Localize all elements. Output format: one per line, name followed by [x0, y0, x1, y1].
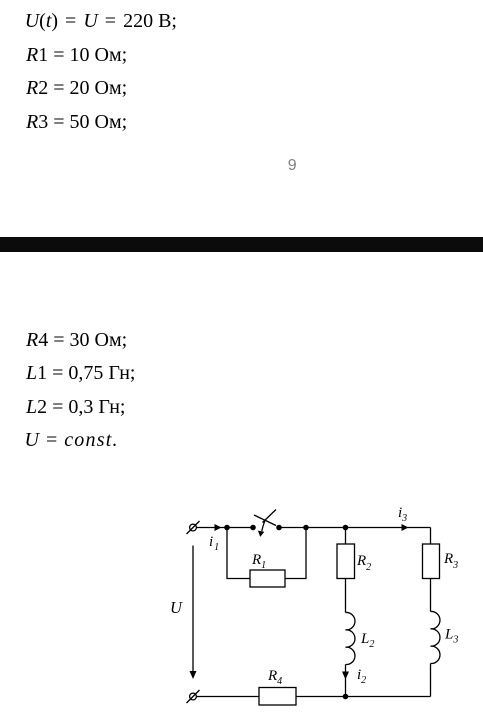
text line L2: [26, 397, 125, 417]
text line L1: [26, 363, 135, 383]
text line R4: [26, 330, 127, 350]
current arrow i3: [402, 524, 409, 531]
node: switch right contact: [276, 525, 282, 531]
text line U(t)=U=220 B: [25, 11, 177, 31]
inductor L3: [431, 611, 440, 663]
svg-text:i2: i2: [357, 667, 366, 686]
resistor R1: [250, 570, 285, 587]
svg-text:R3: R3: [443, 551, 458, 571]
text line R3: [26, 112, 127, 132]
wire: bottom rail: [197, 696, 431, 698]
current arrow i1: [215, 524, 222, 531]
svg-text:U: U: [170, 598, 183, 617]
wire: R1 bypass right leg: [285, 528, 306, 579]
switch S1: [254, 510, 276, 537]
node: switch left contact: [250, 525, 256, 531]
node: R1 bypass right junction: [303, 525, 309, 531]
svg-text:L2: L2: [360, 631, 374, 650]
resistor R4: [259, 688, 296, 706]
resistor R3: [423, 528, 440, 612]
current arrow i2: [342, 672, 349, 680]
node: bottom rail junction: [343, 694, 349, 700]
resistor R2: [337, 528, 355, 613]
voltage arrow U: [190, 546, 197, 680]
terminal: bottom-left input: [187, 690, 200, 703]
inductor L2: [346, 612, 355, 664]
black separator bar: [0, 237, 483, 252]
svg-text:R4: R4: [267, 668, 282, 687]
svg-text:L3: L3: [444, 627, 458, 646]
node: R1 bypass left junction: [224, 525, 230, 531]
text line R1: [26, 45, 127, 65]
svg-text:R2: R2: [356, 553, 371, 573]
node: R2 branch top junction: [343, 525, 349, 531]
wire: L3 to bottom rail: [430, 664, 432, 697]
svg-text:R1: R1: [251, 552, 266, 571]
page number 9: [288, 158, 297, 173]
svg-text:i3: i3: [398, 505, 407, 524]
terminal: top-left input: [187, 521, 200, 534]
wire: R1 bypass left leg: [227, 528, 250, 579]
svg-text:i1: i1: [209, 534, 219, 553]
text line U const: [25, 430, 119, 450]
wire: top rail: [197, 527, 254, 529]
wire: L2 to bottom node: [345, 665, 347, 697]
text line R2: [26, 78, 127, 98]
